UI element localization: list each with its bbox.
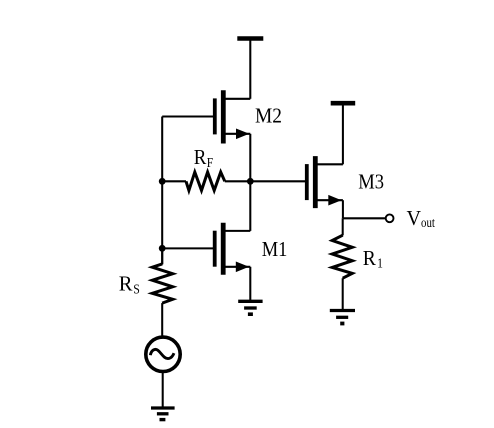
resistor RF (162, 172, 250, 190)
label R1 (363, 246, 383, 272)
wire: left vertical rail (161, 117, 163, 265)
svg-text:out: out (421, 216, 435, 231)
wire: node A to M3 gate (250, 180, 306, 182)
wire: output tee to Vout terminal (343, 217, 386, 219)
svg-text:M3: M3 (358, 170, 384, 194)
source Vin AC source (146, 337, 180, 371)
svg-text:R: R (363, 246, 377, 270)
svg-text:R: R (119, 271, 133, 295)
wire: M1 gate to node C (162, 247, 215, 249)
power rail bar for M2 (237, 36, 263, 41)
svg-text:S: S (133, 282, 140, 297)
node A junction dot (247, 178, 254, 185)
wire: M1 source down to ground (249, 267, 251, 301)
transistor M1 (215, 223, 251, 275)
transistor M2 (215, 90, 251, 143)
ground at AC source (151, 408, 175, 420)
label RS (119, 271, 140, 297)
resistor R1 (332, 235, 352, 309)
label Vout (407, 206, 435, 231)
wire: M3 source down to output tee (342, 200, 344, 218)
svg-text:M1: M1 (262, 237, 288, 261)
label RF (194, 145, 214, 171)
svg-text:V: V (407, 206, 422, 230)
wire: supply bar to M2 drain (249, 39, 251, 99)
ground at M1 source (238, 301, 262, 314)
transistor M3 (307, 156, 343, 208)
wire: node A down to M1 drain (249, 181, 251, 231)
wire: AC source to ground (162, 371, 164, 408)
terminal Vout open circle (386, 214, 394, 222)
wire: M2 source down to node A (249, 134, 251, 182)
ground at R1 (330, 311, 355, 324)
wire: output tee down to R1 (342, 218, 344, 235)
svg-text:1: 1 (377, 257, 383, 272)
node C junction dot (159, 245, 166, 252)
power rail bar for M3 (331, 101, 356, 106)
node B junction dot (159, 178, 166, 185)
svg-text:R: R (194, 145, 207, 169)
wire: M2 gate to left rail (162, 115, 215, 117)
svg-text:F: F (207, 156, 214, 171)
resistor RS (152, 248, 172, 338)
wire: supply bar to M3 drain (342, 103, 344, 164)
svg-text:M2: M2 (255, 104, 282, 128)
